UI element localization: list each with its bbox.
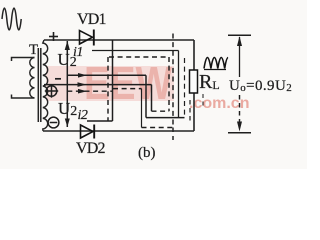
watermark band (46, 66, 174, 101)
wire i2 outer dashed vertical (172, 34, 174, 128)
svg-text:EEW: EEW (84, 57, 172, 109)
U2 voltage arrows (node line with i1 up arrow, down arrow) (65, 41, 70, 127)
polarity circled plus (center tap) (45, 84, 58, 97)
svg-text:VD1: VD1 (77, 11, 107, 28)
wire dashed stub below loop (172, 128, 174, 141)
wire primary top lead (12, 58, 35, 62)
wire center-tap horizontal with i1 arrow (44, 82, 152, 87)
wire i1 loop right vertical (178, 51, 180, 118)
transformer T core (37, 48, 39, 122)
svg-text:VD2: VD2 (76, 140, 106, 157)
wire i2 dashed horizontal with arrow (67, 89, 141, 94)
wire junction vertical (top wire to i2 wire) (112, 40, 114, 121)
wire dashed vertical near RL (184, 58, 186, 118)
wire right (load branch) (193, 40, 195, 131)
Uo dimension top bar (228, 34, 251, 36)
svg-text:RL: RL (199, 71, 220, 93)
svg-text:U2: U2 (58, 99, 77, 119)
wire i1 loop horizontal with arrow (67, 73, 146, 78)
svg-text:Uo=0.9U2: Uo=0.9U2 (229, 78, 292, 94)
wire dashed segment left of load (189, 100, 191, 124)
wire i2 dashed loop right vertical (168, 57, 170, 111)
wire i1 loop top horizontal (92, 50, 179, 52)
Uo dimension lower shaft, down arrow, bottom bar (239, 95, 241, 128)
wire i1 loop left vertical (145, 75, 147, 117)
wire i1 loop bottom (146, 117, 185, 119)
polarity minus upper winding (55, 78, 61, 80)
wire bottom (secondary - terminal to VD2 to load) (43, 130, 194, 132)
transformer T primary winding (30, 58, 35, 98)
wire i2 horizontal (87, 120, 113, 122)
wire dashed segment right of RL (202, 94, 204, 106)
polarity circled minus lower winding (48, 117, 59, 128)
wire center-tap branch vertical (151, 85, 153, 112)
Uo dimension up arrow and shaft (237, 36, 242, 46)
resistor RL (190, 70, 198, 93)
wire top (secondary + terminal to VD1 to load) (44, 39, 194, 41)
svg-text:T: T (29, 42, 38, 58)
wire i2 dashed loop bottom (152, 110, 170, 112)
rectified output waveform icon (204, 58, 228, 69)
AC source sine waveform icon (2, 8, 21, 30)
wire i2 outer dashed bottom (142, 127, 174, 129)
svg-text:(b): (b) (138, 145, 156, 161)
transformer T secondary winding (43, 40, 48, 131)
diode VD2 (81, 125, 95, 139)
svg-text:i2: i2 (78, 108, 88, 123)
wire i2 return vertical (141, 89, 143, 128)
diode VD1 (80, 30, 94, 46)
wire i2 dashed loop left vertical (107, 57, 109, 121)
svg-text:.com.cn: .com.cn (189, 95, 249, 112)
wire primary bottom lead (12, 95, 35, 99)
wire i2 dashed loop top horizontal (109, 56, 169, 58)
polarity plus upper winding (49, 32, 58, 41)
